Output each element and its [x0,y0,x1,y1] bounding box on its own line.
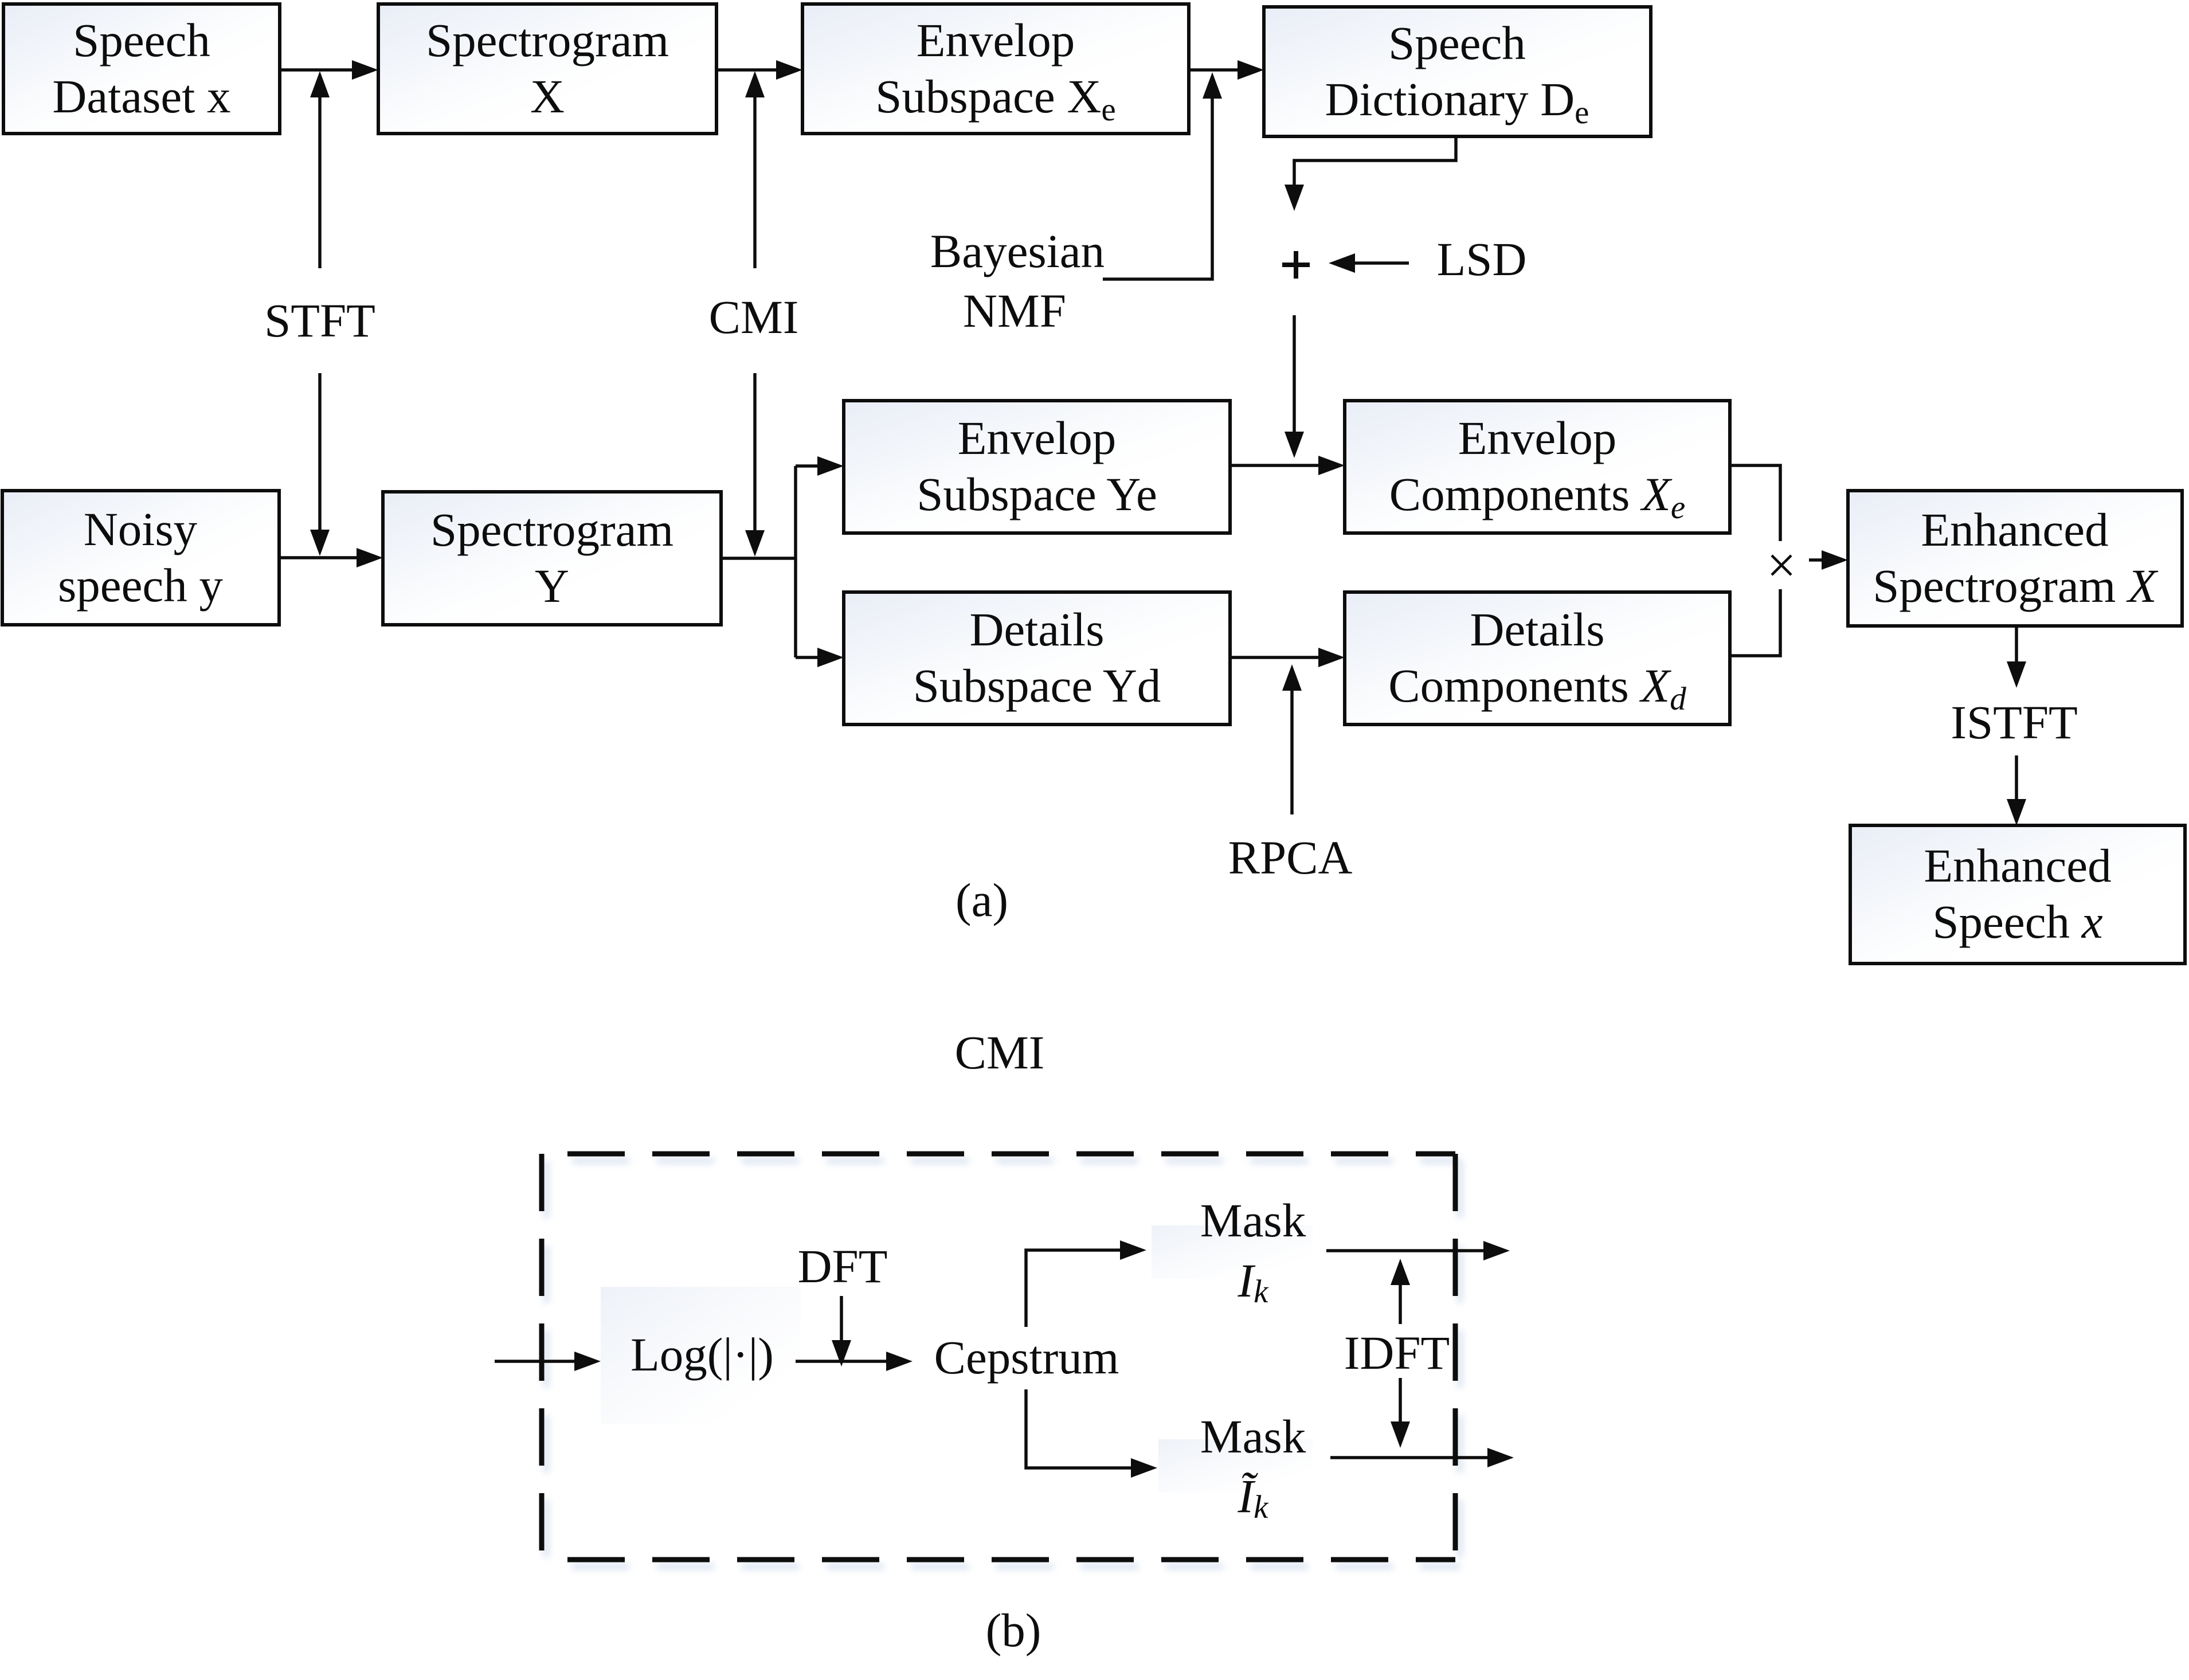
svg-text:NMF: NMF [963,284,1066,337]
svg-text:Subspace Ye: Subspace Ye [917,468,1157,520]
wire box10 to multiplier [1730,589,1780,656]
wire box7 to box9 [1230,456,1345,475]
box Details Subspace Yd [844,592,1230,725]
wire Mask Ik tilde output arrow [1330,1448,1514,1467]
wire Mask Ik output arrow [1326,1241,1510,1260]
box Noisy speech y [2,491,279,625]
wire box11 down arrow [2007,626,2026,688]
wire dictionary feedback loop with down arrowhead [1285,136,1456,211]
wire RPCA up arrow [1282,664,1302,814]
svg-text:Y: Y [535,559,569,612]
svg-text:DFT: DFT [798,1240,888,1293]
label Mask Ik [1200,1194,1306,1310]
svg-text:Speech x: Speech x [1932,895,2102,948]
box Enhanced Spectrogram X [1848,491,2182,626]
box Spectrogram X [378,4,716,134]
wire multiplier to box11 [1809,550,1848,570]
svg-text:Subspace Yd: Subspace Yd [913,659,1161,712]
svg-text:ISTFT: ISTFT [1951,696,2077,749]
wire STFT upper segment with up arrowhead [310,71,330,268]
svg-text:Components Xe: Components Xe [1389,468,1685,526]
svg-text:Envelop: Envelop [1458,412,1617,464]
wire CMI lower segment with down arrowhead [745,373,765,557]
dashed CMI block border [542,1154,1455,1560]
multiply symbol [1772,555,1791,575]
wire box2 to box3 [716,60,802,80]
dashed CMI block shadow [546,1161,1460,1567]
svg-text:Speech: Speech [73,14,210,66]
svg-text:Log(|·|): Log(|·|) [631,1328,774,1381]
label Cepstrum [934,1331,1119,1384]
svg-text:Spectrogram: Spectrogram [430,503,673,556]
wire CMI upper segment with up arrowhead [745,71,765,268]
svg-text:Envelop: Envelop [917,14,1075,66]
wire box5 to box6 [279,548,383,567]
label Mask Ik tilde [1200,1410,1306,1525]
svg-text:Speech: Speech [1388,17,1526,69]
label (a) [956,874,1008,926]
svg-text:Components Xd: Components Xd [1388,659,1686,717]
svg-text:(b): (b) [986,1604,1041,1656]
wire branch to box7 [796,456,844,476]
box Details Components Xd [1345,592,1730,725]
svg-text:Mask: Mask [1200,1410,1306,1463]
wire box8 to box10 [1230,648,1345,667]
svg-text:IDFT: IDFT [1344,1326,1450,1379]
svg-text:Enhanced: Enhanced [1924,839,2111,892]
wire IDFT double arrow [1391,1259,1410,1448]
svg-text:Mask: Mask [1200,1194,1306,1247]
wire ISTFT to box12 down arrow [2007,755,2026,825]
svg-text:Cepstrum: Cepstrum [934,1331,1119,1384]
box Envelop Components Xe [1345,401,1730,533]
node Mask Ik gradient panel [1152,1225,1313,1279]
svg-text:Details: Details [969,603,1104,656]
label CMI panel a [709,291,799,343]
box Envelop Subspace Xe [802,4,1189,134]
box Speech Dictionary De [1264,7,1651,136]
wire box9 to multiplier [1730,465,1780,541]
svg-text:Bayesian: Bayesian [930,225,1105,277]
wire box3 to box4 [1189,60,1264,80]
label Bayesian NMF [930,225,1105,337]
node Log gradient panel [601,1287,801,1424]
wire box6 to branch point [721,557,796,560]
plus adder symbol [1282,251,1310,279]
wire branch to box8 [796,648,844,667]
label Log magnitude [631,1328,774,1381]
svg-text:CMI: CMI [709,291,799,343]
svg-text:Subspace Xe: Subspace Xe [875,70,1115,128]
svg-text:RPCA: RPCA [1228,831,1353,884]
label ISTFT [1951,696,2077,749]
label IDFT [1344,1326,1450,1379]
svg-text:Dataset x: Dataset x [52,70,230,123]
box Speech Dataset x [3,4,280,134]
wire Cepstrum upper branch [1026,1240,1146,1327]
wire box1 to box2 [280,60,378,80]
box Envelop Subspace Ye [844,401,1230,533]
svg-text:Spectrogram: Spectrogram [426,14,669,66]
label (b) [986,1604,1041,1656]
wire Cepstrum lower branch [1026,1389,1157,1478]
wire Log to Cepstrum [796,1352,913,1371]
svg-text:speech y: speech y [58,559,224,612]
wire Bayesian NMF connector with up arrowhead [1103,72,1222,279]
node Mask Ik tilde gradient panel [1158,1439,1313,1493]
svg-text:Noisy: Noisy [84,503,198,555]
svg-text:LSD: LSD [1437,233,1527,285]
svg-text:Dictionary De: Dictionary De [1325,73,1589,131]
label CMI panel b title [955,1026,1045,1079]
label DFT [798,1240,888,1293]
label RPCA [1228,831,1353,884]
svg-text:CMI: CMI [955,1026,1045,1079]
svg-text:X: X [530,70,565,123]
svg-text:(a): (a) [956,874,1008,926]
wire DFT down arrow [832,1296,851,1366]
svg-text:Envelop: Envelop [958,412,1117,464]
box Spectrogram Y [383,492,721,625]
label STFT [264,294,375,347]
wire plus down to envelop components line [1285,315,1304,458]
label LSD [1437,233,1527,285]
svg-text:Details: Details [1470,603,1604,656]
wire LSD to plus with left arrowhead [1329,253,1409,273]
svg-text:STFT: STFT [264,294,375,347]
box Enhanced Speech x [1850,825,2185,964]
svg-text:Enhanced: Enhanced [1921,503,2108,556]
wire STFT lower segment with down arrowhead [310,373,330,556]
svg-text:Spectrogram X: Spectrogram X [1873,559,2159,612]
wire branch vertical [794,466,797,657]
wire input arrow into CMI block [495,1352,601,1371]
